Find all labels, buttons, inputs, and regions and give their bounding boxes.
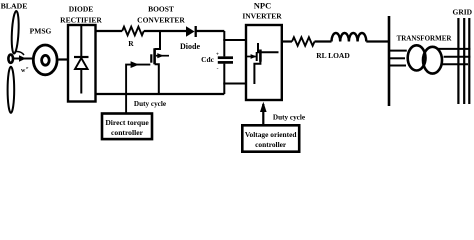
generator PMSG inner circle bbox=[42, 55, 50, 65]
arrow duty cycle into NPC inverter bbox=[260, 102, 267, 125]
transformer winding right bbox=[423, 47, 442, 74]
svg-text:+: + bbox=[216, 52, 219, 58]
wire primary phase lines bbox=[389, 51, 407, 66]
label Direct torque controller bbox=[105, 118, 149, 137]
svg-text:Voltage oriented: Voltage oriented bbox=[245, 130, 298, 139]
shaft arrow to PMSG bbox=[14, 52, 33, 62]
svg-text:NPC: NPC bbox=[254, 1, 271, 11]
svg-text:controller: controller bbox=[111, 128, 144, 137]
svg-text:Diode: Diode bbox=[180, 42, 200, 51]
diode D1 inside rectifier bbox=[74, 25, 89, 94]
turbine blade upper bbox=[11, 11, 20, 54]
turbine blade lower bbox=[8, 67, 15, 113]
wire top rail to diode bbox=[144, 30, 187, 32]
block direct torque controller bbox=[102, 114, 152, 140]
svg-text:r: r bbox=[26, 65, 28, 70]
label omega-r rotor speed bbox=[21, 65, 28, 74]
wire dc-link jog top bbox=[223, 31, 246, 56]
svg-text:Duty cycle: Duty cycle bbox=[273, 114, 305, 122]
svg-text:GRID: GRID bbox=[453, 8, 473, 17]
svg-text:Direct torque: Direct torque bbox=[105, 118, 149, 127]
wire dc-link jog bottom bbox=[223, 83, 246, 85]
diode D2 boost bbox=[186, 26, 196, 37]
svg-text:Cdc: Cdc bbox=[201, 55, 214, 64]
generator PMSG outer circle bbox=[33, 45, 57, 75]
svg-text:INVERTER: INVERTER bbox=[242, 12, 282, 21]
turbine hub bbox=[8, 55, 13, 63]
block voltage oriented controller bbox=[242, 125, 299, 151]
inductor/resistor R on top rail bbox=[122, 27, 144, 36]
resistor of RL load bbox=[292, 37, 315, 46]
wire dc bottom rail bbox=[96, 93, 225, 95]
transformer winding left bbox=[408, 45, 426, 70]
wire RL load to bus bbox=[366, 40, 389, 42]
svg-text:Duty cycle: Duty cycle bbox=[134, 100, 166, 108]
svg-text:PMSG: PMSG bbox=[30, 27, 52, 36]
capacitor Cdc bbox=[218, 58, 233, 94]
svg-text:CONVERTER: CONVERTER bbox=[137, 16, 185, 25]
block NPC inverter bbox=[246, 25, 282, 100]
transistor Q2 inside NPC inverter bbox=[247, 43, 279, 84]
label BOOST CONVERTER bbox=[137, 5, 185, 25]
wire PMSG to rectifier bbox=[59, 58, 69, 60]
svg-text:controller: controller bbox=[255, 140, 287, 149]
wire top rail diode to jog bbox=[196, 30, 224, 32]
label Voltage oriented controller bbox=[245, 130, 298, 149]
inductor of RL load bbox=[332, 33, 367, 42]
block diode rectifier bbox=[68, 25, 96, 102]
svg-text:TRANSFORMER: TRANSFORMER bbox=[397, 35, 453, 43]
svg-text:RECTIFIER: RECTIFIER bbox=[60, 16, 102, 25]
svg-text:RL LOAD: RL LOAD bbox=[316, 51, 350, 60]
label DIODE RECTIFIER bbox=[60, 4, 102, 24]
node primary bus bar bbox=[388, 16, 391, 106]
label NPC INVERTER bbox=[242, 1, 282, 21]
svg-text:BOOST: BOOST bbox=[148, 5, 174, 14]
svg-text:R: R bbox=[128, 39, 134, 48]
label Cdc with polarity bbox=[201, 52, 219, 73]
wire between R and L bbox=[315, 40, 332, 42]
node grid bus bars bbox=[458, 18, 469, 104]
svg-text:-: - bbox=[217, 66, 219, 72]
wire secondary phase lines bbox=[437, 49, 470, 64]
wire NPC inverter output bbox=[282, 40, 292, 42]
svg-text:DIODE: DIODE bbox=[69, 4, 94, 13]
wire gate duty line with arrow bbox=[126, 61, 150, 113]
svg-text:BLADE: BLADE bbox=[1, 2, 28, 11]
svg-text:w: w bbox=[21, 68, 26, 74]
transistor Q1 boost switch bbox=[151, 31, 169, 94]
wire dc top rail bbox=[96, 30, 123, 32]
